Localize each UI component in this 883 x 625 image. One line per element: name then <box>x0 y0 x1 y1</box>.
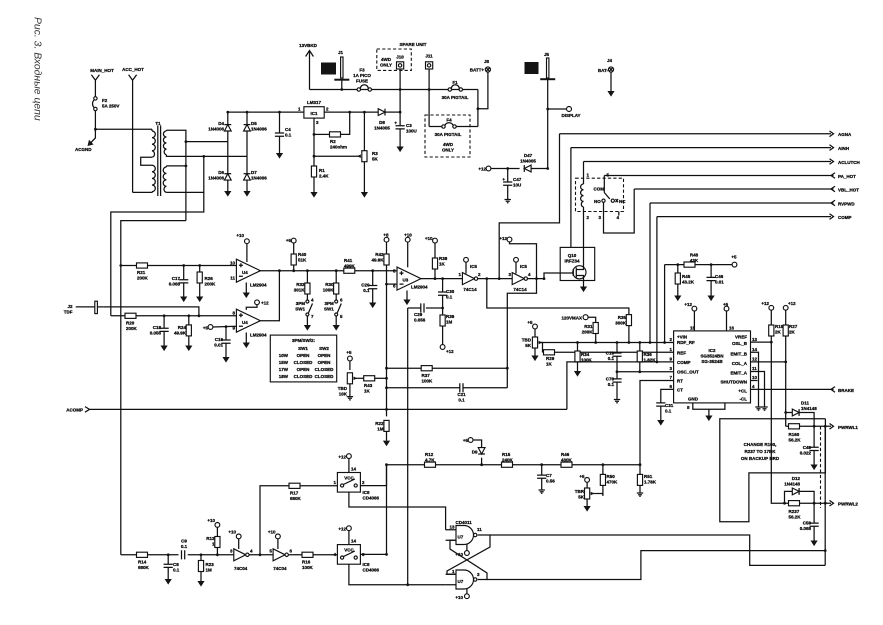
svg-text:0.56: 0.56 <box>546 479 555 484</box>
svg-text:1K: 1K <box>364 389 371 394</box>
svg-text:BRAKE: BRAKE <box>838 388 854 393</box>
svg-text:1M: 1M <box>377 427 384 432</box>
terminal +12 (U8A) <box>338 454 351 460</box>
svg-text:+12: +12 <box>684 302 692 307</box>
NAND U7B CD4011 <box>446 569 480 594</box>
svg-text:BATT+: BATT+ <box>470 68 485 73</box>
svg-text:IC1: IC1 <box>310 111 318 116</box>
wire to transformer primary top <box>95 128 152 130</box>
node PWR1 b <box>824 425 827 428</box>
svg-text:74C14: 74C14 <box>513 287 527 292</box>
svg-text:ON BACKUP BRD: ON BACKUP BRD <box>741 456 780 461</box>
diode D8 1N4005 <box>374 109 400 131</box>
svg-text:100K: 100K <box>323 288 335 293</box>
svg-text:74C04: 74C04 <box>273 566 287 571</box>
analog switch U8B CD4066 <box>333 531 445 585</box>
resistor R43 1K (wiper) <box>358 376 387 394</box>
resistor R49 43.2K <box>675 263 695 292</box>
svg-text:C4: C4 <box>285 127 291 132</box>
svg-text:IC8: IC8 <box>363 562 371 567</box>
AC GND flag <box>75 129 95 152</box>
svg-text:C50: C50 <box>803 521 812 526</box>
diode D7 1N4006 <box>244 156 268 188</box>
svg-text:13VBKD: 13VBKD <box>299 43 318 48</box>
svg-text:ACC_HOT: ACC_HOT <box>122 67 144 72</box>
svg-text:56.2K: 56.2K <box>789 438 802 443</box>
node C21 left <box>385 386 388 389</box>
terminal +10 (ref divider) <box>383 233 389 243</box>
svg-text:680K: 680K <box>138 565 150 570</box>
wire R48 divider line <box>665 264 732 266</box>
svg-text:1K: 1K <box>546 362 553 367</box>
svg-text:CLOSED: CLOSED <box>315 367 335 372</box>
svg-text:11: 11 <box>477 527 482 532</box>
svg-text:1N4006: 1N4006 <box>251 176 267 181</box>
resistor R35 300K <box>615 315 631 343</box>
relay coil <box>581 184 584 247</box>
svg-text:TBD: TBD <box>338 386 348 391</box>
svg-text:1N4005: 1N4005 <box>520 159 536 164</box>
connector J5 battery (spark plug) <box>525 52 556 79</box>
svg-text:+5: +5 <box>579 474 585 479</box>
svg-text:C3: C3 <box>406 123 412 128</box>
svg-text:FUSE: FUSE <box>356 79 368 84</box>
svg-text:C49: C49 <box>803 445 812 450</box>
ground under C53 <box>811 538 818 547</box>
svg-text:0.056: 0.056 <box>150 331 162 336</box>
connector DISPLAY <box>548 107 581 119</box>
svg-text:LM2904: LM2904 <box>411 285 428 290</box>
resistor R46 430K <box>561 452 573 467</box>
svg-text:R31: R31 <box>584 324 593 329</box>
ground under C3 <box>397 144 404 153</box>
svg-text:0.1: 0.1 <box>285 133 292 138</box>
svg-text:5K: 5K <box>372 157 379 162</box>
svg-text:ONLY: ONLY <box>442 148 454 153</box>
terminal +5 ref (U4B minus) <box>203 325 237 331</box>
svg-text:0.022: 0.022 <box>800 451 812 456</box>
ground under C7 <box>539 487 545 493</box>
capacitor C52 0.022 <box>800 426 819 461</box>
ground under R34 <box>574 368 581 377</box>
node J5 to +12 rail <box>546 167 549 170</box>
svg-text:R41: R41 <box>344 258 353 263</box>
node secondary tap <box>185 140 188 143</box>
svg-text:OSC_OUT: OSC_OUT <box>677 370 699 375</box>
resistor R38 1K pullup <box>432 243 447 280</box>
svg-text:15W: 15W <box>279 360 289 365</box>
capacitor C53 0.068 <box>800 503 819 537</box>
svg-text:+12: +12 <box>761 301 769 306</box>
ground under U4B <box>243 340 250 349</box>
resistor R22 1M to ground <box>375 420 389 437</box>
svg-text:COL_A: COL_A <box>732 361 748 366</box>
terminal +5 (pot) <box>527 320 537 329</box>
wire signal line U4 out to comparator <box>279 270 397 272</box>
svg-text:R13: R13 <box>206 536 215 541</box>
resistor R14 680K <box>137 552 150 570</box>
connector J1 (spark plug) <box>321 50 349 90</box>
svg-text:C21: C21 <box>457 392 466 397</box>
resistor R24 49.9K <box>174 314 191 342</box>
wire R48 line to RDF_REF <box>664 265 666 343</box>
svg-text:F3: F3 <box>359 68 365 73</box>
capacitor C48 0.01 <box>707 263 725 292</box>
node osc line tap <box>385 463 388 466</box>
signal arrow RVPWD <box>650 200 855 206</box>
svg-text:R24: R24 <box>178 325 187 330</box>
svg-text:Q10: Q10 <box>568 253 577 258</box>
terminal +12 (R54) <box>783 301 796 310</box>
svg-text:74C04: 74C04 <box>234 566 248 571</box>
svg-text:11: 11 <box>230 276 235 281</box>
svg-text:240ohm: 240ohm <box>330 145 347 150</box>
svg-text:D6: D6 <box>218 170 224 175</box>
svg-text:0.1: 0.1 <box>446 295 453 300</box>
capacitor C16 0.01 <box>214 325 230 354</box>
potentiometer R44 5K TBR <box>575 482 603 503</box>
svg-text:TDF: TDF <box>64 310 73 315</box>
resistor R55 56.2K <box>789 424 802 443</box>
svg-text:R22: R22 <box>375 421 384 426</box>
ground under C18 <box>161 343 168 352</box>
ground under C17 <box>180 294 187 303</box>
resistor R61 100K (lag loop) <box>385 366 509 384</box>
signal arrow COMP <box>657 214 852 220</box>
svg-text:RT: RT <box>677 379 683 384</box>
resistor R53 2K pullup COL_B <box>769 310 784 342</box>
wire tap up to switch row 1 <box>260 486 337 555</box>
svg-text:OPEN: OPEN <box>318 360 331 365</box>
svg-text:+: + <box>394 121 397 126</box>
connector J3 MAIN_HOT <box>90 68 114 97</box>
svg-text:17W: 17W <box>279 367 289 372</box>
wire RT pin to osc bottom <box>640 381 674 465</box>
svg-text:LM2904: LM2904 <box>250 283 267 288</box>
node PWR1 a <box>813 425 816 428</box>
svg-text:10: 10 <box>230 261 236 266</box>
terminal +12 (gate pullup) <box>499 236 512 242</box>
svg-text:R32: R32 <box>296 282 305 287</box>
capacitor C29 0.056 series <box>408 303 444 322</box>
wire GND pins bottom <box>693 403 725 421</box>
wire PA_HOT feed (relay common) <box>603 176 605 193</box>
diode D6 1N4006 <box>208 142 231 188</box>
ground under pot R28 <box>531 353 538 362</box>
svg-text:120VMAX: 120VMAX <box>561 316 582 321</box>
resistor R12 4.7K <box>425 452 436 467</box>
svg-text:R45: R45 <box>682 274 691 279</box>
wire bus corner to J8 node <box>477 90 479 127</box>
wire inv1 to inv2 <box>478 278 512 280</box>
svg-text:+12: +12 <box>499 236 507 241</box>
resistor R34 100K <box>575 341 593 368</box>
svg-text:1N4006: 1N4006 <box>208 127 224 132</box>
wire bottom chain line <box>121 554 234 556</box>
svg-text:680K: 680K <box>290 496 302 501</box>
svg-text:R14: R14 <box>138 560 147 565</box>
svg-text:SPARE UNIT: SPARE UNIT <box>400 42 427 47</box>
svg-text:+CL: +CL <box>738 389 747 394</box>
resistor R36 1.8K <box>637 341 656 372</box>
ground under C48 <box>708 293 715 302</box>
wire COMP pin from ACOMP <box>567 362 674 410</box>
wire U4A out / U4B out tie <box>260 271 279 321</box>
relay contacts COM NO NC <box>594 187 627 216</box>
capacitor C18 0.056 <box>150 314 169 342</box>
signal arrow PWRWL1 <box>830 424 859 430</box>
wire pullup route <box>510 240 537 279</box>
svg-text:0.1: 0.1 <box>665 409 672 414</box>
svg-text:+5: +5 <box>723 302 729 307</box>
node acomp cross <box>385 408 388 411</box>
svg-text:U7: U7 <box>458 579 464 584</box>
capacitor C70 0.1 <box>606 372 622 397</box>
signal arrow PA_HOT <box>604 173 856 179</box>
capacitor C30 0.1 <box>438 277 455 308</box>
wire U3 out to inverters <box>421 278 462 280</box>
ground under R26 <box>196 294 203 303</box>
svg-text:+5: +5 <box>463 438 469 443</box>
wire latch cross-coupling <box>447 535 490 574</box>
svg-text:470K: 470K <box>607 480 619 485</box>
wire buffer node <box>249 554 273 556</box>
ground under Q10 <box>580 284 587 293</box>
wire COL_A to PWR1 drive <box>751 362 786 426</box>
terminal +10 (U5A) <box>464 257 478 273</box>
svg-text:14: 14 <box>351 467 357 472</box>
svg-text:IC8: IC8 <box>363 490 371 495</box>
svg-text:R17: R17 <box>290 491 299 496</box>
svg-text:49.9K: 49.9K <box>371 258 384 263</box>
node CT tap <box>639 463 642 466</box>
node reg out a <box>348 111 351 114</box>
svg-text:PWRWL2: PWRWL2 <box>838 502 858 507</box>
svg-text:ACLUTCH: ACLUTCH <box>838 160 860 165</box>
resistor R54 2K pullup COL_A <box>783 310 798 362</box>
ground arrow SW1A <box>304 322 311 331</box>
svg-text:AGNA: AGNA <box>838 132 852 137</box>
svg-text:BAT-: BAT- <box>598 68 609 73</box>
node D4 top / D5 top <box>226 111 229 114</box>
svg-text:J5: J5 <box>544 52 550 57</box>
svg-text:4.7K: 4.7K <box>425 458 435 463</box>
svg-text:D47: D47 <box>524 153 533 158</box>
node display tap <box>546 108 549 111</box>
svg-text:R40: R40 <box>298 252 307 257</box>
svg-text:NC: NC <box>619 199 626 204</box>
svg-text:13: 13 <box>752 337 758 342</box>
potentiometer R3 5K <box>356 112 378 189</box>
svg-text:RVPWD: RVPWD <box>838 202 855 207</box>
svg-text:2K: 2K <box>789 330 796 335</box>
wire U7A out to right <box>490 535 825 565</box>
svg-text:DISPLAY: DISPLAY <box>561 113 580 118</box>
svg-text:D5: D5 <box>251 121 257 126</box>
signal arrow ACLUTCH <box>584 159 860 165</box>
wire SHUTDOWN stub <box>751 380 758 382</box>
wire comparator lag feedback <box>507 279 536 388</box>
svg-text:+10: +10 <box>455 595 463 600</box>
svg-text:C7: C7 <box>546 473 552 478</box>
svg-text:U7: U7 <box>458 535 464 540</box>
svg-text:ACOMP: ACOMP <box>66 408 83 413</box>
resistor R26 200K <box>197 264 216 293</box>
resistor R23 1M <box>198 553 214 578</box>
svg-text:R237 TO 17BK: R237 TO 17BK <box>745 449 777 454</box>
ground under C28 <box>369 300 376 309</box>
op-amp U3 LM2904 comparator <box>393 267 428 296</box>
svg-text:R26: R26 <box>205 276 214 281</box>
node U8B/U7B input <box>406 583 409 586</box>
svg-text:1N4006: 1N4006 <box>251 127 267 132</box>
resistor R21 200K <box>137 263 149 281</box>
svg-text:4WD: 4WD <box>443 142 454 147</box>
resistor R40 51K pullup <box>291 243 307 272</box>
resistor R20 200K <box>125 313 138 331</box>
svg-text:14: 14 <box>351 539 357 544</box>
capacitor C17 0.068 <box>169 264 189 293</box>
dashed gang line <box>820 426 822 508</box>
ground under R23 <box>197 578 204 587</box>
svg-text:200K: 200K <box>126 326 138 331</box>
svg-text:R42: R42 <box>375 252 384 257</box>
analog switch U8A CD4066 <box>333 459 445 530</box>
node wiper to divider <box>385 377 388 380</box>
relay K1 dashed box <box>576 173 624 221</box>
svg-text:EMIT_B: EMIT_B <box>730 351 747 356</box>
wire bus down-left to op-amp A input <box>121 221 186 555</box>
svg-text:SG3524BN: SG3524BN <box>700 354 723 359</box>
svg-text:+10: +10 <box>404 233 412 238</box>
svg-text:R35: R35 <box>618 315 627 320</box>
svg-text:51K: 51K <box>298 258 307 263</box>
svg-text:F2: F2 <box>102 98 108 103</box>
capacitor C19 0.1 <box>606 341 622 372</box>
ground under C4 <box>276 150 283 159</box>
svg-text:CD4066: CD4066 <box>363 568 380 573</box>
resistor R56 56.2K <box>789 501 802 520</box>
svg-text:2.4K: 2.4K <box>319 174 329 179</box>
terminal +12 (R53) <box>761 301 773 310</box>
ground under D7 <box>243 188 250 197</box>
svg-text:SW1: SW1 <box>298 346 308 351</box>
svg-text:VREF: VREF <box>735 335 747 340</box>
ground under D6 <box>224 188 231 197</box>
svg-text:CD4066: CD4066 <box>363 496 380 501</box>
svg-text:16: 16 <box>729 326 735 331</box>
capacitor C7 0.56 <box>537 463 555 487</box>
terminal +12 (R39) <box>440 345 454 354</box>
node C4 top <box>278 111 281 114</box>
wire buffer2 out <box>289 554 338 556</box>
potentiometer R28 5K <box>522 329 543 353</box>
svg-text:+12: +12 <box>788 301 796 306</box>
wire inv1 to R35 divider <box>487 279 629 315</box>
wire VREF pin up <box>723 302 729 331</box>
svg-text:C31: C31 <box>665 403 674 408</box>
wire tap to D4 column <box>186 141 228 143</box>
svg-text:C30: C30 <box>446 289 455 294</box>
svg-text:J10: J10 <box>396 55 404 60</box>
ground under R1 <box>310 189 317 198</box>
resistor R29 1K to REF pin <box>543 343 674 367</box>
svg-text:+5: +5 <box>731 255 737 260</box>
svg-text:30A PIGTAIL: 30A PIGTAIL <box>442 95 469 100</box>
svg-text:3PM: 3PM <box>325 301 335 306</box>
svg-text:RDF_RF: RDF_RF <box>677 340 695 345</box>
terminal +5 (D9) <box>463 438 473 443</box>
connector J2 TDF <box>64 301 199 316</box>
svg-text:U4: U4 <box>242 320 248 325</box>
svg-text:IRFZ34: IRFZ34 <box>564 259 580 264</box>
svg-text:+VIN: +VIN <box>677 335 687 340</box>
terminal +10 (U5B) <box>514 257 528 273</box>
svg-text:74C14: 74C14 <box>463 287 477 292</box>
svg-text:J1: J1 <box>338 50 344 55</box>
svg-text:100U: 100U <box>406 129 417 134</box>
svg-text:1N4148: 1N4148 <box>801 406 817 411</box>
svg-text:+12: +12 <box>338 455 346 460</box>
svg-text:11: 11 <box>752 366 757 371</box>
svg-text:0.068: 0.068 <box>800 526 812 531</box>
svg-text:18W: 18W <box>279 374 289 379</box>
svg-text:+12: +12 <box>261 301 269 306</box>
svg-text:TBR: TBR <box>575 489 585 494</box>
ground under C47 <box>505 197 511 203</box>
svg-text:4WD: 4WD <box>381 57 392 62</box>
node J8 join <box>477 107 480 110</box>
wire U7B out to right <box>487 551 825 580</box>
node PWR2 a <box>813 502 816 505</box>
svg-text:CLOSED: CLOSED <box>294 360 314 365</box>
wire VBL_HOT feed (relay NO) <box>604 189 635 233</box>
svg-text:D8: D8 <box>379 120 385 125</box>
fuse F2 5A 250V <box>93 97 120 129</box>
wire EMIT_B to ground <box>751 352 762 410</box>
svg-text:LM317: LM317 <box>307 100 322 105</box>
svg-text:GND: GND <box>688 397 699 402</box>
svg-text:240K: 240K <box>502 458 514 463</box>
resistor R31 200K <box>582 323 599 344</box>
ground under R44 <box>584 503 591 512</box>
dashed box SPARE UNIT <box>377 42 427 70</box>
wire OSC_OUT line <box>617 371 674 373</box>
terminal +12 (U8B) <box>338 526 351 532</box>
svg-text:U3: U3 <box>403 278 409 283</box>
svg-text:SW1: SW1 <box>324 307 334 312</box>
svg-text:REF: REF <box>677 350 686 355</box>
node adj <box>313 133 316 136</box>
svg-text:3PM/SW/2:: 3PM/SW/2: <box>292 338 316 343</box>
terminal +10 (R38) <box>425 236 438 243</box>
signal arrow AGNA <box>560 131 852 137</box>
wire COL_B to PWR2 drive <box>751 342 785 503</box>
svg-text:F4: F4 <box>446 118 452 123</box>
svg-text:OPEN: OPEN <box>297 353 310 358</box>
resistor R50 470K <box>600 465 618 496</box>
svg-text:EMIT_A: EMIT_A <box>730 371 747 376</box>
node C3 top <box>399 111 402 114</box>
svg-text:100K: 100K <box>302 565 314 570</box>
diode D12 1N4148 <box>784 476 814 503</box>
svg-text:R48: R48 <box>690 253 699 258</box>
fuse F1 30A PIGTAIL <box>442 80 469 100</box>
svg-text:R50: R50 <box>607 474 616 479</box>
svg-text:0.1: 0.1 <box>173 568 180 573</box>
svg-text:COM: COM <box>594 187 605 192</box>
table box SW positions <box>270 335 336 382</box>
